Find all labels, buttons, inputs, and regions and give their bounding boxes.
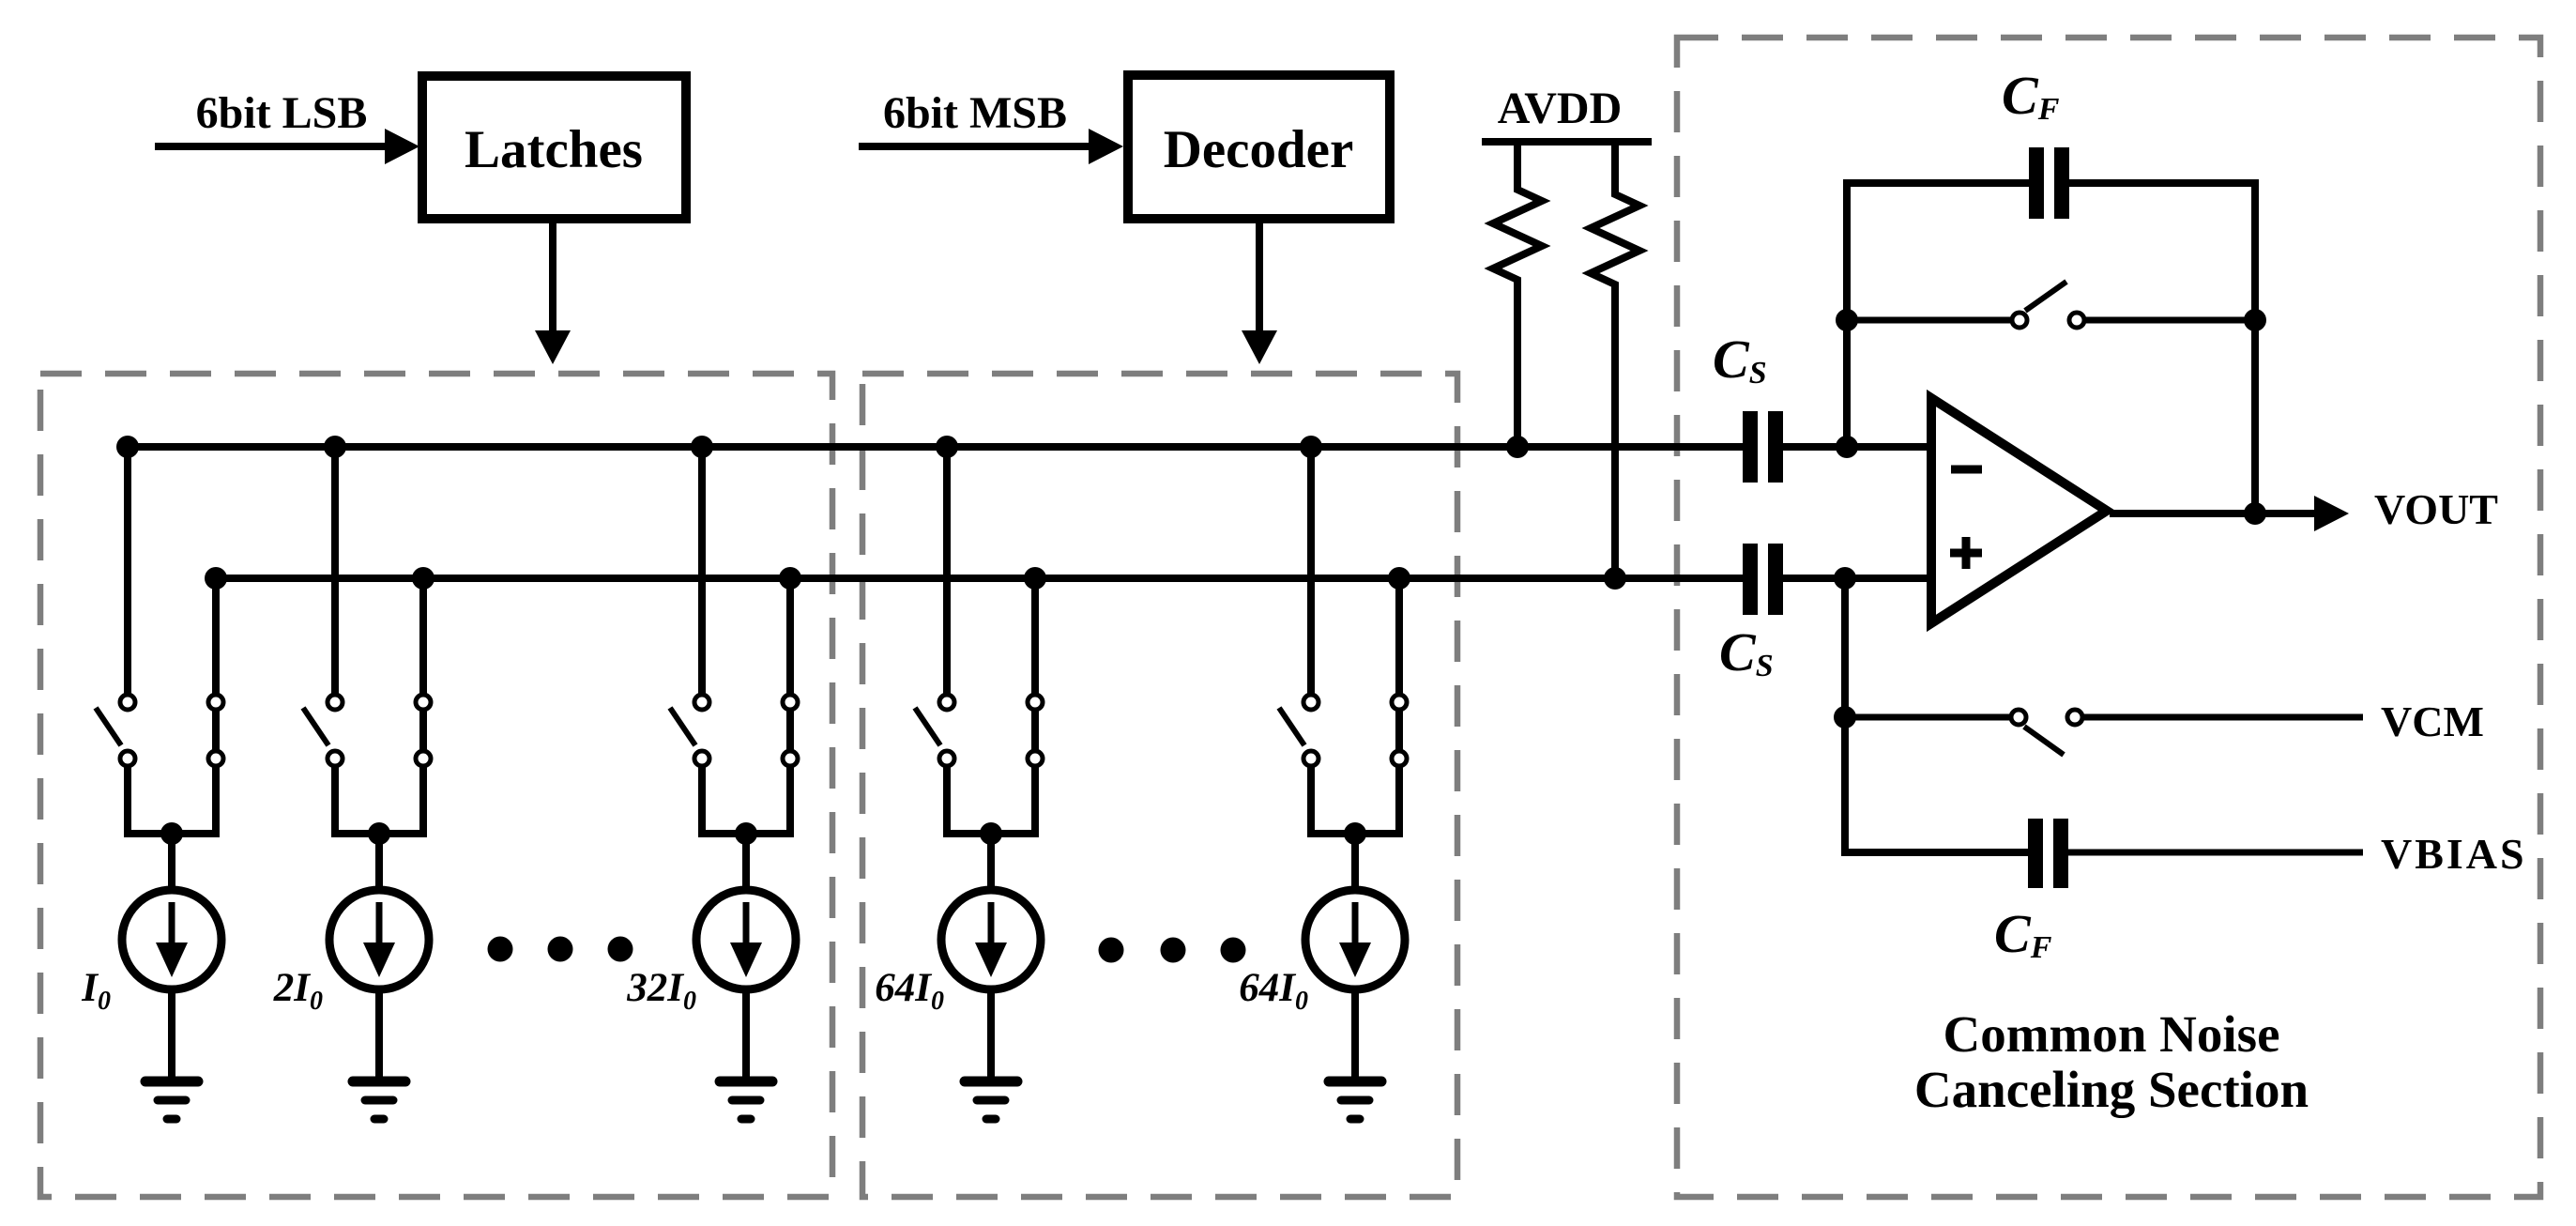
wire: Decoder output down arrow (1242, 223, 1277, 364)
wire: cell drop from negative bus to switch (x=230) (212, 578, 220, 694)
wire: minus node up to feedback branch and top loop left run (1847, 183, 2029, 447)
wire: common node to current source (168, 834, 175, 890)
wire: plus node down to VCM/VBIAS branch (1841, 578, 1849, 852)
wire: VCM switch branch right segment (2084, 714, 2363, 721)
wire: cell drop from negative bus to switch (x=1491) (1395, 578, 1403, 694)
label: CF (bottom) (1994, 903, 2052, 965)
node: junction dot on bottom bus at x=1491 (1388, 567, 1410, 590)
node: junction dot on bottom bus at x=842 (779, 567, 801, 590)
ground symbol (353, 1081, 405, 1119)
switch SW (closed, right branch of cell at x=230) (208, 695, 223, 766)
wire: joining bar of cell (1307, 830, 1403, 837)
svg-text:Decoder: Decoder (1164, 120, 1354, 179)
ground symbol (1329, 1081, 1381, 1119)
wire: VBIAS branch right segment (2068, 850, 2363, 856)
wire: CS to op-amp minus input (1783, 443, 1927, 451)
node: R1 to positive bus junction (1506, 436, 1529, 458)
node: junction dot on top bus at x=136 (116, 436, 139, 458)
block: Latches box (422, 76, 686, 219)
svg-text:Canceling Section: Canceling Section (1914, 1061, 2309, 1118)
op-amp U1 (1931, 398, 2107, 623)
wire: top feedback loop right run down to output (2069, 183, 2255, 515)
wire: joining bar of cell (124, 830, 220, 837)
label: CF (top) (2002, 65, 2060, 127)
resistor R2 (right pull-up) (1591, 142, 1639, 575)
switch: reset switch in feedback (open) (2012, 282, 2084, 328)
node: junction dot on top bus at x=1009 (936, 436, 958, 458)
switch SW (closed, right branch of cell at x=1103) (1028, 695, 1043, 766)
label: 6bit MSB (883, 88, 1067, 138)
ground symbol (720, 1081, 772, 1119)
switch SW (closed, right branch of cell at x=1491) (1392, 695, 1407, 766)
node: R2 to negative bus junction (1604, 567, 1626, 590)
wire: common node to current source (987, 834, 995, 890)
wire: common node to current source (742, 834, 750, 890)
svg-text:AVDD: AVDD (1498, 84, 1622, 133)
dashed box: LSB current cell section (40, 374, 832, 1197)
wire: cell drop from positive bus to switch (x=357) (331, 447, 339, 694)
wire: 6bit LSB input arrow (155, 129, 419, 164)
value label 64I0 (875, 966, 944, 1016)
wire: right switch to common node (419, 767, 427, 837)
node: cell common node dot (980, 822, 1002, 845)
switch SW (open, left branch of cell at x=748) (670, 695, 709, 766)
switch SW (closed, right branch of cell at x=451) (416, 695, 431, 766)
wire: joining bar of cell (331, 830, 427, 837)
label: VBIAS (2381, 830, 2527, 878)
wire: CS to op-amp plus input (1783, 575, 1927, 582)
node: cell common node dot (735, 822, 757, 845)
dashed box: MSB current cell section (862, 374, 1457, 1197)
ground symbol (145, 1081, 198, 1119)
label: VCM (2381, 697, 2484, 745)
current source 2I0 (circle with down arrow) (329, 890, 429, 989)
switch SW (open, left branch of cell at x=357) (303, 695, 343, 766)
wire: current source to ground (987, 989, 995, 1080)
node: output junction dot (2244, 502, 2266, 525)
wire: VBIAS branch left segment (1845, 849, 2028, 852)
power rail AVDD label (1498, 84, 1622, 133)
wire: feedback switch branch left segment (1847, 317, 2010, 324)
wire: cell drop from negative bus to switch (x=842) (786, 578, 794, 694)
label: 6bit LSB (196, 88, 368, 138)
wire: VCM switch branch left segment (1845, 714, 2009, 721)
svg-text:6bit MSB: 6bit MSB (883, 88, 1067, 138)
capacitor CS (bottom, plus input sampling cap) (1743, 544, 1783, 615)
node: cell common node dot (368, 822, 390, 845)
capacitor CF (top feedback cap) (2029, 147, 2069, 219)
value label I0 (81, 966, 111, 1016)
wire: cell drop from positive bus to switch (x=1009) (943, 447, 951, 694)
wire: right switch to common node (1031, 767, 1039, 837)
wire: current source to ground (168, 989, 175, 1080)
wire: left switch to common node (698, 767, 706, 837)
wire: cell drop from negative bus to switch (x=451) (419, 578, 427, 694)
node: junction dot on bottom bus at x=1103 (1024, 567, 1046, 590)
node B: plus input node (1834, 567, 1856, 590)
node: junction dot on bottom bus at x=451 (412, 567, 434, 590)
current source I0 (circle with down arrow) (122, 890, 221, 989)
node A: minus input summing node (1836, 436, 1858, 458)
wire: right switch to common node (786, 767, 794, 837)
wire: left switch to common node (1307, 767, 1315, 837)
ground symbol (965, 1081, 1017, 1119)
wire: current source to ground (742, 989, 750, 1080)
wire: negative output bus (bottom) (216, 575, 1743, 582)
wire: right switch to common node (212, 767, 220, 837)
node: junction dot on bottom bus at x=230 (205, 567, 227, 590)
current source 32I0 (circle with down arrow) (696, 890, 796, 989)
svg-text:6bit LSB: 6bit LSB (196, 88, 368, 138)
dashed box: common noise canceling section (1677, 38, 2540, 1197)
wire: Latches output down arrow (535, 223, 571, 364)
node: feedback branch left junction (1836, 309, 1858, 331)
label: VOUT (2374, 485, 2498, 533)
node: cell common node dot (1344, 822, 1366, 845)
power rail AVDD bar (1482, 138, 1652, 146)
wire: current source to ground (1351, 989, 1359, 1080)
wire: joining bar of cell (943, 830, 1039, 837)
label: section title (1914, 1005, 2309, 1118)
wire: joining bar of cell (698, 830, 794, 837)
capacitor CS (top, negative input sampling cap) (1743, 411, 1783, 483)
capacitor CF (bottom, bias cap) (2028, 819, 2068, 888)
label: CS (top) (1713, 329, 1767, 391)
svg-text:Common Noise: Common Noise (1943, 1005, 2279, 1063)
value label 32I0 (626, 966, 696, 1016)
wire: left switch to common node (124, 767, 131, 837)
current source 64I0 (circle with down arrow) (941, 890, 1041, 989)
wire: current source to ground (375, 989, 383, 1080)
wire: right switch to common node (1395, 767, 1403, 837)
ellipsis dots (omitted MSB cells) (1099, 938, 1246, 963)
svg-text:Latches: Latches (465, 120, 643, 179)
svg-text:VCM: VCM (2381, 697, 2484, 745)
node: junction dot on top bus at x=357 (324, 436, 346, 458)
wire: op-amp output to VOUT arrow (2110, 496, 2349, 531)
node: feedback branch right junction (2244, 309, 2266, 331)
current source 64I0 (circle with down arrow) (1305, 890, 1405, 989)
wire: left switch to common node (331, 767, 339, 837)
wire: 6bit MSB input arrow (859, 129, 1123, 164)
value label 64I0 (1239, 966, 1308, 1016)
label: CS (bottom) (1719, 621, 1774, 683)
wire: common node to current source (375, 834, 383, 890)
node: junction dot on top bus at x=748 (691, 436, 713, 458)
node: cell common node dot (160, 822, 183, 845)
wire: feedback switch branch right segment (2086, 317, 2255, 324)
block: Decoder box (1128, 75, 1390, 219)
value label 2I0 (273, 966, 323, 1016)
node: junction dot on top bus at x=1397 (1300, 436, 1322, 458)
wire: common node to current source (1351, 834, 1359, 890)
wire: positive output bus (top) (128, 443, 1743, 451)
ellipsis dots (omitted LSB cells) (488, 937, 633, 962)
wire: cell drop from negative bus to switch (x=1103) (1031, 578, 1039, 694)
switch: VCM switch (open) (2011, 710, 2082, 755)
wire: cell drop from positive bus to switch (x=136) (124, 447, 131, 694)
svg-text:VBIAS: VBIAS (2381, 830, 2527, 878)
resistor R1 (left pull-up) (1493, 142, 1542, 443)
wire: cell drop from positive bus to switch (x=1397) (1307, 447, 1315, 694)
switch SW (closed, right branch of cell at x=842) (783, 695, 798, 766)
switch SW (open, left branch of cell at x=1397) (1279, 695, 1318, 766)
node: VCM branch junction (1834, 706, 1856, 728)
wire: cell drop from positive bus to switch (x=748) (698, 447, 706, 694)
wire: left switch to common node (943, 767, 951, 837)
switch SW (open, left branch of cell at x=136) (96, 695, 135, 766)
svg-text:VOUT: VOUT (2374, 485, 2498, 533)
switch SW (open, left branch of cell at x=1009) (915, 695, 954, 766)
